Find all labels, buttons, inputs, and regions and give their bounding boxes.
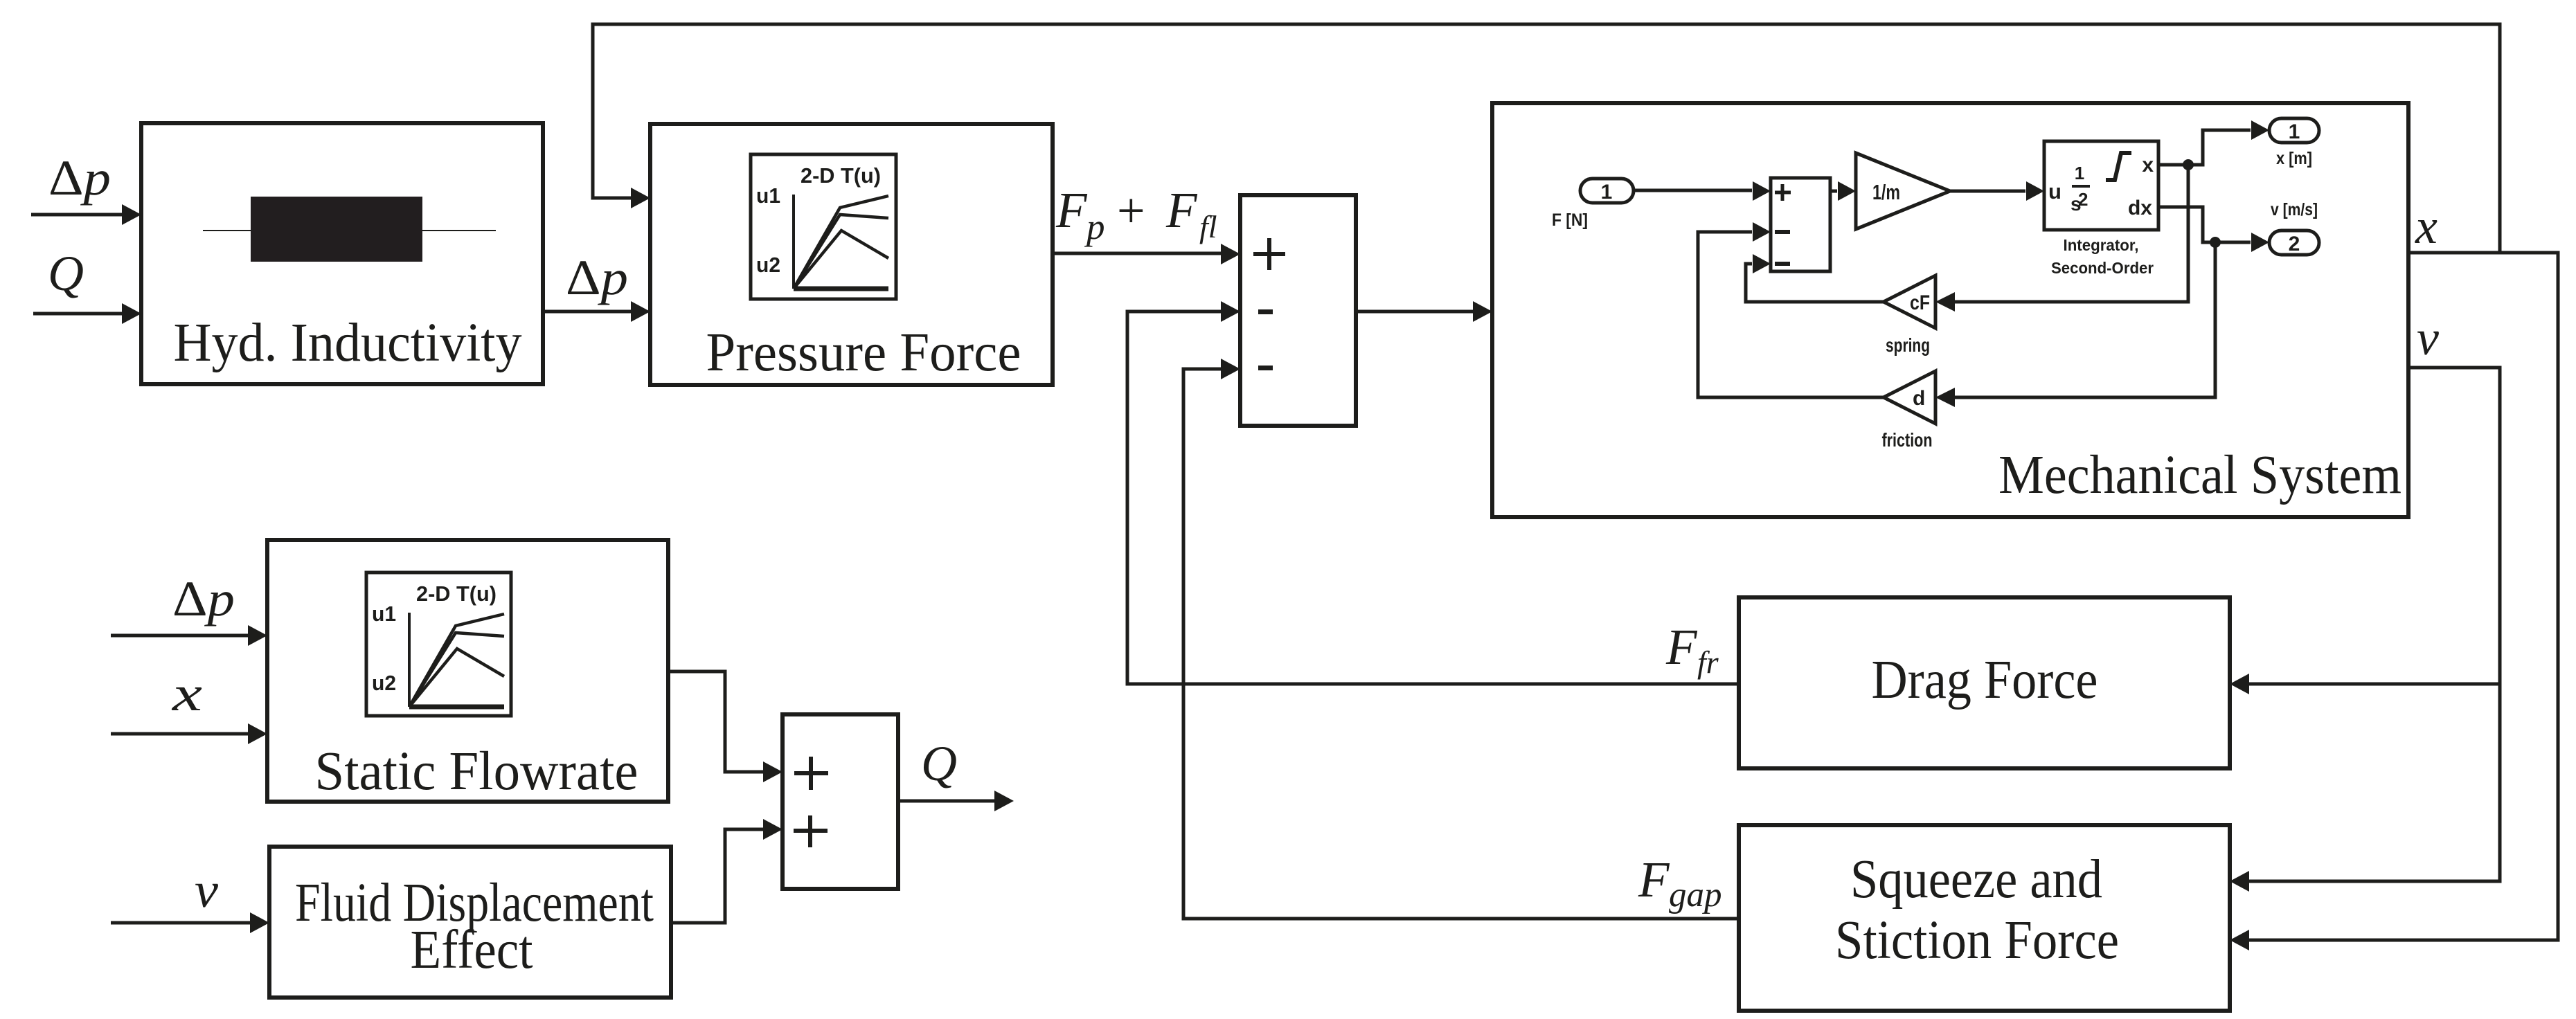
svg-text:spring: spring xyxy=(1886,334,1930,356)
wire: v branch into Drag Force input xyxy=(2230,674,2500,694)
block: Drag Force xyxy=(1739,597,2230,768)
svg-text:Q: Q xyxy=(921,736,957,791)
inner wire: gain 1/m to integrator xyxy=(1950,181,2044,201)
icon: inductor body xyxy=(251,197,422,262)
integrator block (second-order) xyxy=(2044,141,2158,230)
label: Fluid Displacement Effect xyxy=(295,873,654,980)
node label: Delta-p (Hyd Inductivity input) xyxy=(48,150,111,206)
svg-text:Pressure Force: Pressure Force xyxy=(706,323,1021,383)
wire: Pressure Force output Fp+Ffl to sum1 + input xyxy=(1053,244,1240,264)
sum block S2 (+ +) xyxy=(782,714,898,889)
svg-text:Δp: Δp xyxy=(172,571,235,626)
svg-text:v: v xyxy=(2417,310,2439,366)
sum block S1 (+ - -) xyxy=(1240,195,1356,426)
inner wire: integrator x output to outport 1 xyxy=(2158,120,2269,165)
block: Static Flowrate xyxy=(267,540,668,802)
wire: sum2 output Q xyxy=(898,791,1014,811)
label: Static Flowrate xyxy=(315,741,638,802)
icon: inductor lead line xyxy=(203,230,496,231)
wire: Delta-p input into Static Flowrate xyxy=(111,625,267,646)
wire: v input into Fluid Displacement Effect xyxy=(111,912,269,933)
label: v [m/s] xyxy=(2271,200,2318,219)
inner wire: integrator dx output to outport 2 xyxy=(2158,207,2269,252)
inner wire: sum to gain 1/m xyxy=(1830,181,1856,201)
wire: Hyd. Inductivity output Delta-p to Pressure Force input 2 xyxy=(543,301,650,322)
svg-text:1: 1 xyxy=(1601,181,1613,204)
wire: Delta-p input into Hyd. Inductivity xyxy=(31,204,141,225)
sum block S3 inside mech (+ - -) xyxy=(1771,178,1830,271)
svg-text:F [N]: F [N] xyxy=(1552,210,1588,230)
node label: Delta-p (Static Flowrate input) xyxy=(172,571,235,626)
svg-text:cF: cF xyxy=(1910,291,1930,314)
node label: Fp + Ffl xyxy=(1055,182,1217,247)
svg-text:x: x xyxy=(2415,199,2438,254)
svg-text:Mechanical System: Mechanical System xyxy=(1998,445,2401,505)
label: Drag Force xyxy=(1872,650,2098,710)
label: Mechanical System xyxy=(1998,445,2401,505)
wire: Squeeze and Stiction output Fgap to sum1 minus input xyxy=(1183,359,1739,919)
svg-text:fr: fr xyxy=(1697,644,1719,680)
svg-text:x: x xyxy=(172,666,202,721)
svg-text:1: 1 xyxy=(2289,120,2300,143)
inner wire: friction gain output to sum second input xyxy=(1698,222,1884,397)
svg-text:x [m]: x [m] xyxy=(2276,149,2312,168)
svg-text:Stiction Force: Stiction Force xyxy=(1835,910,2119,971)
wire: Drag Force output Ffr to sum1 minus input xyxy=(1127,301,1739,684)
svg-text:d: d xyxy=(1913,387,1925,410)
node label: Q (Hyd Inductivity input) xyxy=(48,246,84,301)
svg-text:p: p xyxy=(1084,207,1105,247)
outport 1 (x) xyxy=(2269,118,2319,143)
svg-text:u1: u1 xyxy=(756,183,780,208)
svg-text:1: 1 xyxy=(2075,163,2084,183)
svg-text:u2: u2 xyxy=(756,253,780,277)
icon: 2-D lookup table (Pressure Force) xyxy=(751,154,896,299)
gain 1/m xyxy=(1856,153,1950,229)
svg-text:v: v xyxy=(195,863,218,918)
svg-text:F: F xyxy=(1638,851,1670,908)
block: Squeeze and Stiction Force xyxy=(1739,825,2230,1011)
label: Hyd. Inductivity xyxy=(174,313,522,373)
label: F [N] xyxy=(1552,210,1588,230)
svg-text:gap: gap xyxy=(1669,876,1722,914)
svg-text:u2: u2 xyxy=(372,671,396,695)
svg-text:Static Flowrate: Static Flowrate xyxy=(315,741,638,802)
inner wire: spring gain output to sum third input xyxy=(1746,254,1884,302)
junction dot on dx wire xyxy=(2210,237,2221,248)
svg-text:Second-Order: Second-Order xyxy=(2051,259,2154,277)
label: Squeeze and Stiction Force xyxy=(1835,849,2119,971)
svg-text:u: u xyxy=(2048,179,2061,204)
block: Pressure Force xyxy=(650,124,1053,385)
label: spring xyxy=(1886,334,1930,356)
svg-text:+: + xyxy=(1117,183,1145,238)
outport 2 (v) xyxy=(2269,231,2319,255)
svg-text:2-D T(u): 2-D T(u) xyxy=(416,581,497,606)
svg-text:Q: Q xyxy=(48,246,84,301)
inner wire: x branch down to spring gain input xyxy=(1935,165,2188,312)
gain cF (spring) xyxy=(1884,276,1935,328)
label: Pressure Force xyxy=(706,323,1021,383)
node label: v (Fluid Displacement input) xyxy=(195,863,218,918)
svg-text:Δp: Δp xyxy=(48,150,111,206)
inner wire: dx branch down to friction gain input xyxy=(1935,242,2215,407)
block: Fluid Displacement Effect xyxy=(269,847,671,998)
wire: Mechanical System v output, right and down to Squeeze input 1 xyxy=(2230,368,2500,892)
svg-text:friction: friction xyxy=(1882,429,1933,451)
icon: 2-D lookup table (Static Flowrate) xyxy=(366,572,511,716)
node label: Delta-p (between blocks) xyxy=(566,250,628,305)
label: friction xyxy=(1882,429,1933,451)
label: Integrator, Second-Order xyxy=(2051,236,2154,277)
svg-text:2: 2 xyxy=(2289,233,2300,255)
wire: Q input into Hyd. Inductivity xyxy=(33,303,141,324)
svg-text:u1: u1 xyxy=(372,602,396,626)
inport 1 (F [N]) xyxy=(1580,179,1634,204)
svg-text:fl: fl xyxy=(1199,209,1217,244)
wire: Fluid Displacement output to sum2 + input xyxy=(671,819,782,923)
svg-text:Δp: Δp xyxy=(566,250,628,305)
label: x [m] xyxy=(2276,149,2312,168)
svg-text:Squeeze and: Squeeze and xyxy=(1850,849,2102,910)
node label: v (right of Mechanical System) xyxy=(2417,310,2439,366)
svg-text:1/m: 1/m xyxy=(1872,180,1900,204)
wire: sum1 output to Mechanical System input xyxy=(1356,301,1492,322)
svg-text:2-D T(u): 2-D T(u) xyxy=(800,163,881,188)
block: Hyd. Inductivity xyxy=(141,123,543,384)
junction dot on x wire xyxy=(2183,159,2194,170)
svg-text:Integrator,: Integrator, xyxy=(2064,236,2139,254)
svg-text:v [m/s]: v [m/s] xyxy=(2271,200,2318,219)
svg-text:dx: dx xyxy=(2128,197,2152,219)
svg-text:x: x xyxy=(2142,154,2154,177)
wire: top feedback from x node to Pressure Force input 1 xyxy=(593,24,2500,253)
node label: Q (sum2 output) xyxy=(921,736,957,791)
wire: Mechanical System x output, right and down to Squeeze input 2 xyxy=(2230,253,2558,950)
svg-text:Hyd. Inductivity: Hyd. Inductivity xyxy=(174,313,522,373)
svg-text:F: F xyxy=(1055,182,1088,238)
svg-text:F: F xyxy=(1665,619,1698,675)
svg-text:2: 2 xyxy=(2078,189,2088,210)
node label: x (Static Flowrate input) xyxy=(172,666,202,721)
node label: Fgap xyxy=(1638,851,1722,914)
inner wire: inport 1 to sum xyxy=(1634,181,1771,201)
svg-text:Drag Force: Drag Force xyxy=(1872,650,2098,710)
node label: Ffr xyxy=(1665,619,1719,680)
node label: x (right of Mechanical System) xyxy=(2415,199,2438,254)
wire: x input into Static Flowrate xyxy=(111,723,267,744)
gain d (friction) xyxy=(1884,371,1935,424)
block: Mechanical System xyxy=(1492,103,2408,517)
wire: Static Flowrate output to sum2 + input xyxy=(668,671,782,782)
svg-text:Effect: Effect xyxy=(411,920,533,980)
svg-text:F: F xyxy=(1165,182,1198,238)
